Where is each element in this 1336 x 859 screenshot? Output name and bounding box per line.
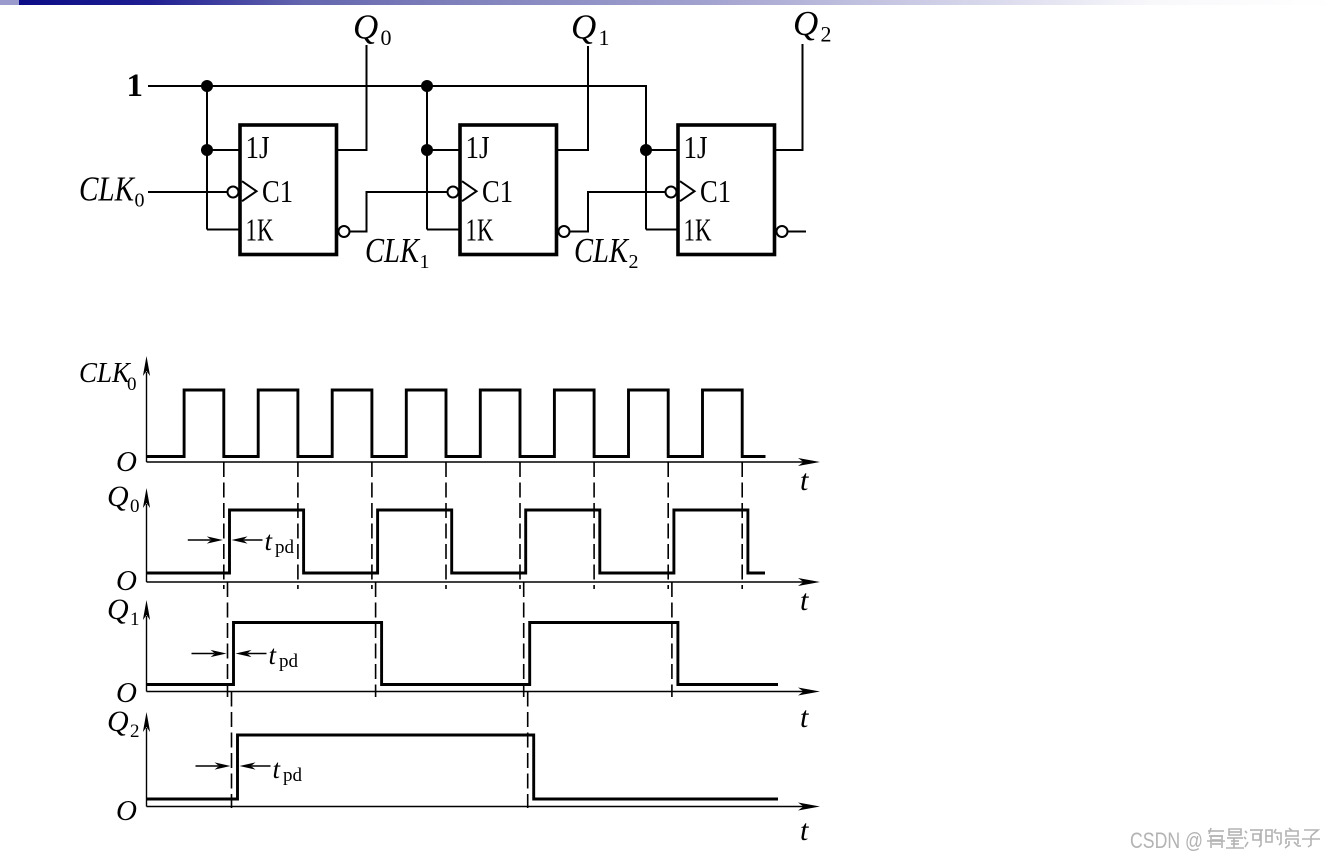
svg-text:Q: Q (107, 480, 129, 513)
junction dot bus/FF2 (421, 80, 433, 92)
wire: Q-bar0 to CLK1 (FF2 clock) (350, 192, 448, 232)
junction dot bus/FF1 (201, 80, 213, 92)
Q0 tpd left dimension arrow (188, 539, 211, 541)
flip-flop U2 body (460, 125, 557, 255)
svg-text:Q: Q (571, 8, 596, 47)
svg-text:pd: pd (279, 651, 299, 672)
dashed guide from CLK0 falling-edge at x=668.2 (667, 462, 669, 589)
svg-text:2: 2 (821, 22, 832, 47)
wire: FF2 J/K feed vertical (426, 86, 428, 230)
svg-text:1: 1 (599, 25, 610, 50)
wire: logic-1 bus from label 1 to FF3 feed (148, 86, 646, 230)
flip-flop U1 Q-bar bubble (339, 226, 350, 237)
Q2 chart y-axis (146, 728, 148, 807)
top banner left block (0, 0, 19, 5)
dashed guide from Q0 rising-edge at x=375.6 (375, 582, 377, 697)
dashed guide from CLK0 falling-edge at x=223.8 (223, 462, 225, 589)
Q0 chart y-axis (146, 504, 148, 582)
Q0 tpd right dimension arrow (232, 536, 248, 543)
wire: FF1 1J input stub (207, 149, 240, 151)
Q1 tpd left dimension arrow (192, 653, 215, 655)
Q2 waveform (147, 735, 778, 799)
svg-text:0: 0 (130, 496, 140, 517)
svg-text:pd: pd (275, 537, 295, 558)
flip-flop U2 Q-bar bubble (559, 226, 570, 237)
dashed guide from CLK0 falling-edge at x=594.1 (593, 462, 595, 589)
flip-flop U3 clock bubble (666, 187, 677, 198)
svg-text:t: t (800, 814, 809, 847)
wire: Q0 output to top label (337, 45, 367, 150)
svg-text:t: t (800, 701, 809, 734)
junction dot FF1 1J (201, 144, 213, 156)
dashed guide from Q1 rising-edge at x=231.5 (231, 692, 233, 809)
Q2 tpd right dimension arrow (240, 762, 256, 769)
Q1 tpd right dimension arrow (236, 650, 252, 657)
junction dot FF3 1J (640, 144, 652, 156)
wire: FF2 1K input stub (427, 229, 460, 231)
svg-text:pd: pd (283, 765, 303, 786)
wire: CLK0 input to FF1 clock (148, 191, 228, 193)
svg-text:t: t (800, 464, 809, 497)
svg-text:O: O (116, 446, 137, 478)
dashed guide from CLK0 falling-edge at x=297.9 (297, 462, 299, 589)
svg-text:1K: 1K (684, 212, 712, 248)
svg-text:CLK: CLK (365, 231, 420, 270)
svg-text:1K: 1K (246, 212, 274, 248)
dashed guide from CLK0 falling-edge at x=371.9 (371, 462, 373, 589)
svg-text:2: 2 (629, 251, 639, 273)
Q1 chart x-axis (147, 691, 808, 693)
wire: Q1 output to top label (556, 46, 588, 150)
svg-text:1J: 1J (246, 129, 270, 165)
svg-text:0: 0 (381, 25, 392, 50)
CLK0 waveform (147, 390, 766, 457)
junction dot FF2 1J (421, 144, 433, 156)
top banner gradient bar (19, 0, 1336, 5)
svg-text:0: 0 (127, 374, 137, 395)
svg-text:1: 1 (130, 609, 140, 630)
dashed guide from CLK0 falling-edge at x=446 (445, 462, 447, 589)
dashed guide from CLK0 falling-edge at x=742.2 (741, 462, 743, 589)
dashed guide from CLK0 falling-edge at x=520 (519, 462, 521, 589)
Q1 chart y-axis (146, 616, 148, 692)
wire: Q-bar1 to CLK2 (FF3 clock) (569, 192, 666, 232)
flip-flop U1 dynamic-clock triangle (242, 181, 257, 201)
flip-flop U3 body (678, 125, 775, 255)
wire: FF1 J/K feed vertical (206, 86, 208, 230)
wire: Q-bar2 output stub (788, 231, 807, 233)
CLK0 chart x-axis (147, 461, 808, 463)
svg-text:1: 1 (127, 68, 144, 104)
Q0 waveform (147, 510, 765, 573)
wire: FF2 1J input stub (427, 149, 460, 151)
svg-text:1J: 1J (466, 129, 490, 165)
flip-flop U1 body (240, 125, 337, 255)
Q2 chart x-axis (147, 806, 808, 808)
svg-text:2: 2 (130, 721, 140, 742)
wire: FF3 1K input stub (646, 229, 678, 231)
svg-text:C1: C1 (262, 173, 293, 209)
dashed guide from Q1 rising-edge at x=527.7 (527, 692, 529, 809)
dashed guide from Q0 rising-edge at x=671.9 (671, 582, 673, 697)
CLK0 chart y-axis (146, 372, 148, 462)
dashed guide from Q0 rising-edge at x=523.7 (523, 582, 525, 697)
Q2 tpd left dimension arrow (196, 765, 219, 767)
svg-text:CLK: CLK (79, 357, 132, 389)
svg-text:C1: C1 (700, 173, 731, 209)
svg-text:Q: Q (793, 4, 818, 43)
svg-text:1: 1 (420, 251, 430, 273)
svg-text:O: O (116, 795, 137, 827)
svg-text:0: 0 (135, 190, 145, 212)
wire: FF3 1J input stub (646, 149, 678, 151)
wire: FF1 1K input stub (207, 229, 240, 231)
svg-text:Q: Q (107, 705, 129, 738)
watermark CJK glyphs (1207, 828, 1320, 848)
svg-text:CLK: CLK (79, 170, 135, 209)
svg-text:Q: Q (353, 8, 378, 47)
dashed guide from Q0 rising-edge at x=227.5 (227, 582, 229, 697)
Q1 waveform (147, 623, 778, 685)
svg-text:CLK: CLK (574, 231, 629, 270)
flip-flop U1 clock bubble (228, 187, 239, 198)
Q0 chart x-axis (147, 581, 808, 583)
svg-text:1K: 1K (466, 212, 494, 248)
svg-text:1J: 1J (684, 129, 708, 165)
svg-text:t: t (800, 584, 809, 617)
svg-text:Q: Q (107, 593, 129, 626)
svg-text:C1: C1 (482, 173, 513, 209)
svg-text:CSDN @: CSDN @ (1130, 828, 1203, 853)
flip-flop U3 Q-bar bubble (777, 226, 788, 237)
flip-flop U2 clock bubble (448, 187, 459, 198)
wire: Q2 output to top label (775, 44, 803, 150)
flip-flop U3 dynamic-clock triangle (680, 181, 695, 201)
flip-flop U2 dynamic-clock triangle (462, 181, 477, 201)
